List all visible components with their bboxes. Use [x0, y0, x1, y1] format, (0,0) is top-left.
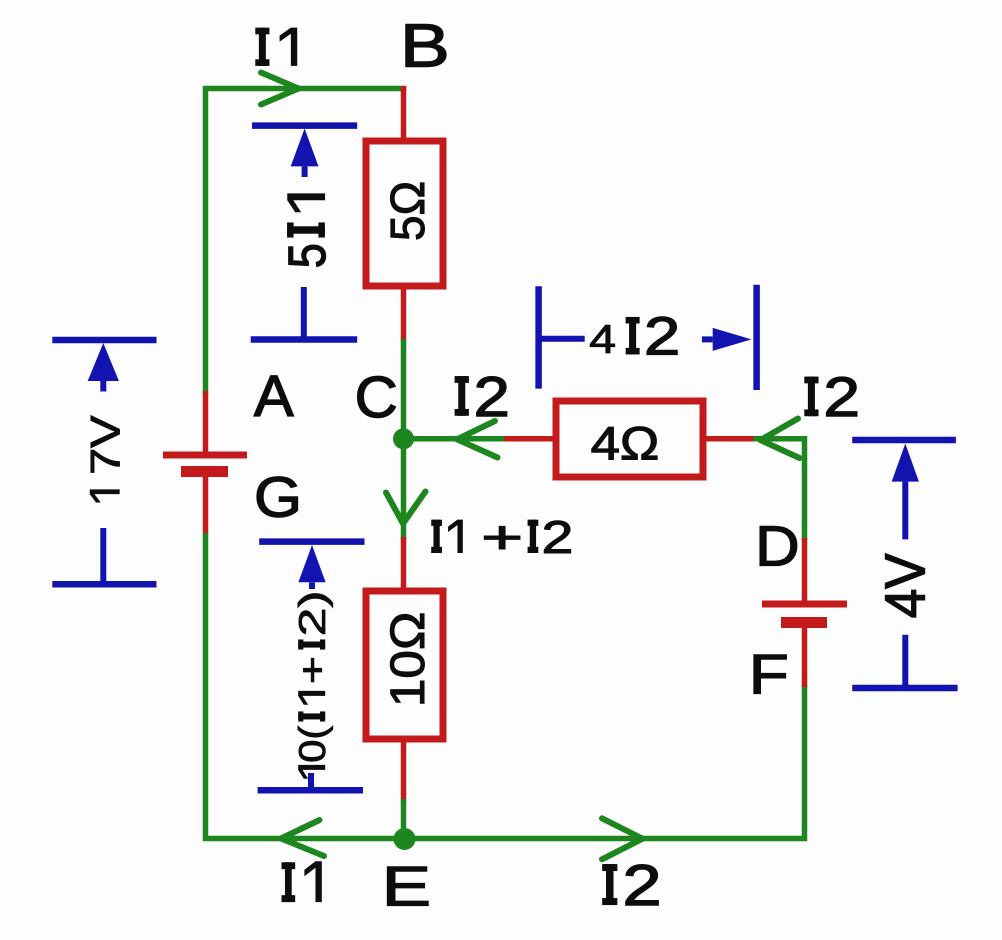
annotation 10(I1+I2) bottom bar — [258, 787, 363, 794]
node E junction dot — [394, 828, 416, 850]
resistor R1 5-ohm body — [366, 141, 443, 286]
current label I1 (bottom) — [282, 861, 322, 902]
node label B — [400, 12, 450, 80]
svg-text:G: G — [254, 465, 302, 529]
battery V2 4V short plate — [781, 617, 827, 628]
svg-text:2: 2 — [541, 511, 573, 563]
wire R3 to node E (green) — [401, 799, 407, 840]
svg-text:2: 2 — [623, 853, 662, 918]
wire top-right corner down (green) — [754, 439, 805, 540]
current arrow I1+I2 downward — [386, 492, 426, 524]
annotation 17V bottom bar — [52, 581, 156, 588]
wire corner to battery V2 (red) — [802, 538, 808, 601]
svg-text:D: D — [755, 515, 800, 578]
wire node A to battery V1 (red) — [203, 391, 209, 453]
wire battery V1 down to bottom (red) — [203, 476, 209, 535]
annotation 4I2 right bar — [753, 285, 760, 390]
current label I1+I2 — [431, 511, 573, 563]
wire into resistor R3 (red) — [401, 537, 407, 590]
annotation 10(I1+I2) top bar — [259, 538, 364, 545]
wire bottom loop: left-lower, bottom, right-lower (green) — [206, 533, 805, 839]
node label E — [382, 855, 431, 918]
node C junction dot — [393, 428, 414, 449]
annotation 4I2 left tick — [539, 336, 585, 342]
wire R3 lower stub (red) — [401, 741, 407, 801]
node label C — [355, 364, 398, 429]
battery V1 17V long plate — [163, 452, 247, 459]
annotation 10(I1+I2) up arrow — [298, 545, 325, 589]
svg-text:2): 2) — [291, 590, 333, 636]
wire node A to node B via top-left corner (green) — [206, 89, 407, 395]
svg-text:F: F — [749, 643, 789, 706]
node label A — [254, 363, 294, 428]
current label I1 (top) — [255, 28, 297, 66]
value label 5-ohm (rotated) — [382, 181, 435, 241]
annotation 5I1 top bar — [252, 122, 357, 129]
svg-text:10Ω: 10Ω — [382, 612, 435, 708]
svg-text:2: 2 — [644, 305, 680, 366]
resistor R3 10-ohm body — [366, 591, 443, 739]
annotation 10(I1+I2) bottom tick — [308, 773, 314, 792]
battery V1 17V short plate — [181, 466, 228, 477]
resistor R2 4-ohm body — [556, 401, 703, 477]
annotation 4V text (rotated) — [873, 553, 937, 618]
annotation 17V top bar — [52, 337, 156, 344]
wire node C to resistor R2 (green) — [401, 436, 506, 442]
annotation 4I2 left bar — [535, 286, 542, 388]
wire battery V2 down (red) — [802, 625, 808, 687]
current label I2 (bottom) — [602, 853, 661, 918]
svg-text:+: + — [481, 511, 523, 563]
svg-text:E: E — [382, 855, 431, 918]
annotation 4V bottom tick — [902, 635, 908, 690]
svg-text:2: 2 — [823, 365, 860, 428]
node label G — [254, 465, 302, 529]
svg-text:5: 5 — [277, 243, 336, 268]
value label 10-ohm (rotated) — [382, 612, 435, 708]
annotation 17V up arrow — [88, 343, 119, 392]
svg-text:B: B — [400, 12, 450, 80]
wire R1 to node C (green) — [401, 339, 407, 441]
annotation 17V text (rotated) — [82, 415, 129, 502]
svg-text:2: 2 — [474, 365, 510, 428]
battery V2 4V long plate — [762, 601, 847, 608]
svg-text:4V: 4V — [873, 553, 937, 618]
wire R1 lower stub (red) — [401, 288, 407, 341]
node label D — [755, 515, 800, 578]
annotation 4V bottom bar — [852, 685, 957, 692]
wire into resistor R2 (red) — [504, 436, 554, 442]
wire resistor R2 to corner (red) — [705, 436, 755, 442]
annotation 5I1 bottom bar — [251, 336, 358, 343]
current arrow I1 on top wire — [261, 73, 299, 105]
wire node B to resistor R1 (red) — [401, 86, 407, 141]
svg-text:C: C — [355, 364, 398, 429]
node label F — [749, 643, 789, 706]
svg-text:7V: 7V — [82, 415, 129, 474]
svg-text:0(: 0( — [291, 726, 333, 763]
current arrow I2 into node C — [457, 421, 498, 458]
svg-text:5Ω: 5Ω — [382, 181, 435, 241]
annotation 4V top bar — [852, 437, 956, 444]
annotation 4I2 right arrow — [702, 328, 752, 351]
svg-text:+: + — [291, 656, 333, 684]
current label I2 (middle) — [455, 365, 510, 428]
svg-text:4Ω: 4Ω — [591, 417, 660, 470]
current label I2 (right) — [804, 365, 860, 428]
value label 4-ohm — [591, 417, 660, 470]
annotation 10(I1+I2) text (rotated) — [291, 590, 333, 778]
annotation 5I1 text (rotated) — [277, 193, 336, 268]
annotation 17V bottom tick — [100, 528, 106, 586]
current arrow I2 on bottom wire — [602, 818, 643, 859]
annotation 4I2 value text — [589, 305, 680, 366]
wire node C to resistor R3 (green) — [401, 436, 407, 540]
svg-text:4: 4 — [589, 316, 616, 361]
current arrow I2 at right corner — [761, 419, 800, 459]
annotation 4V up arrow — [892, 444, 919, 540]
svg-text:A: A — [254, 363, 294, 428]
current arrow I1 on bottom wire — [281, 820, 324, 856]
annotation 5I1 bottom tick — [301, 287, 307, 341]
annotation 5I1 up arrow — [291, 129, 319, 178]
